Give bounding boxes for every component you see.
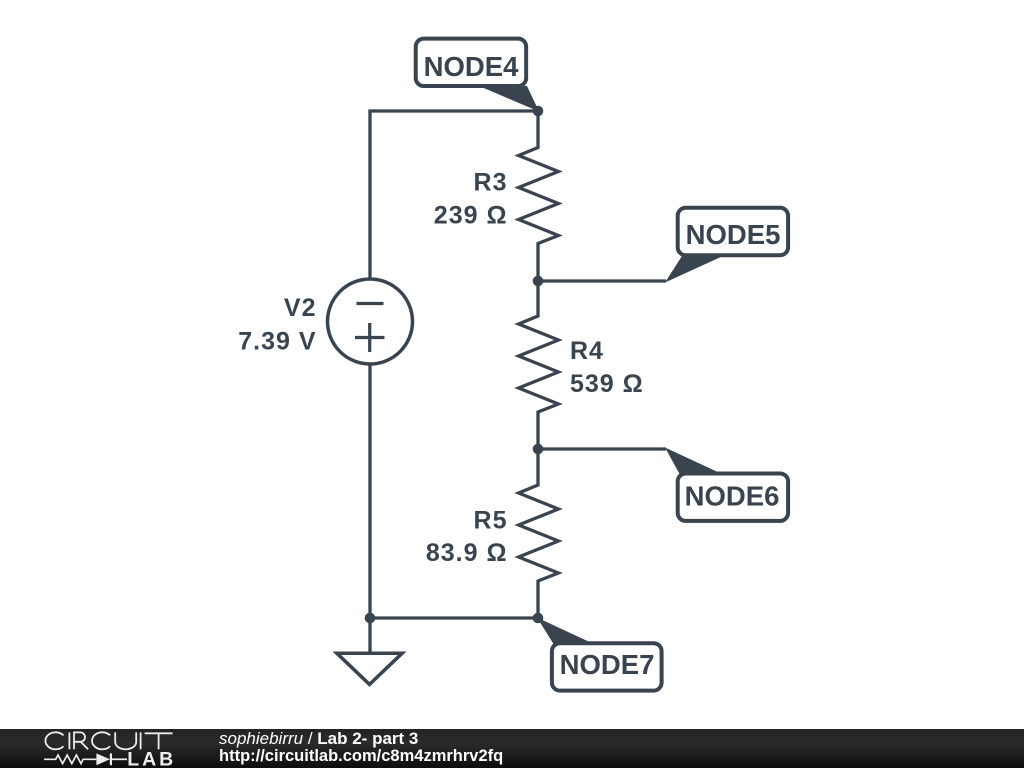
footer line 2	[219, 747, 503, 766]
junction dot at node NODE5	[533, 276, 544, 287]
resistor R4	[519, 281, 559, 449]
wire left rail lower	[368, 363, 371, 618]
junction dot at node NODE7	[533, 613, 544, 624]
node NODE4 callout	[416, 39, 539, 112]
svg-text:R5: R5	[474, 507, 508, 535]
resistor R3	[519, 111, 559, 281]
node NODE7 callout	[537, 618, 662, 691]
ground	[337, 618, 402, 684]
svg-text:NODE5: NODE5	[686, 219, 781, 250]
wire node5 stub	[538, 279, 666, 282]
wire top rail	[368, 109, 538, 112]
voltage source V2	[328, 279, 413, 364]
junction dot left bottom	[365, 613, 376, 624]
wire bottom rail	[370, 616, 538, 619]
svg-text:R4: R4	[570, 337, 604, 365]
wire node6 stub	[538, 447, 666, 450]
CircuitLab logo	[0, 729, 185, 768]
svg-text:83.9 Ω: 83.9 Ω	[426, 539, 508, 567]
logo word CIRCUIT	[45, 732, 172, 749]
svg-text:NODE4: NODE4	[424, 51, 519, 82]
junction dot at node NODE4	[533, 106, 544, 117]
svg-text:NODE6: NODE6	[685, 480, 780, 511]
logo resistor+diode	[44, 753, 127, 765]
node NODE6 callout	[665, 448, 788, 521]
junction dot at node NODE6	[533, 444, 544, 455]
svg-text:7.39 V: 7.39 V	[238, 328, 316, 356]
wire left rail upper	[368, 111, 371, 280]
resistor R5	[519, 449, 559, 618]
svg-text:LAB: LAB	[127, 749, 176, 768]
svg-text:V2: V2	[284, 294, 317, 322]
footer bar	[0, 729, 1024, 768]
svg-text:R3: R3	[474, 169, 508, 197]
svg-text:239 Ω: 239 Ω	[434, 202, 508, 230]
svg-text:539 Ω: 539 Ω	[570, 370, 644, 398]
footer line 1	[219, 729, 418, 749]
node NODE5 callout	[665, 208, 788, 283]
svg-text:NODE7: NODE7	[560, 649, 655, 680]
